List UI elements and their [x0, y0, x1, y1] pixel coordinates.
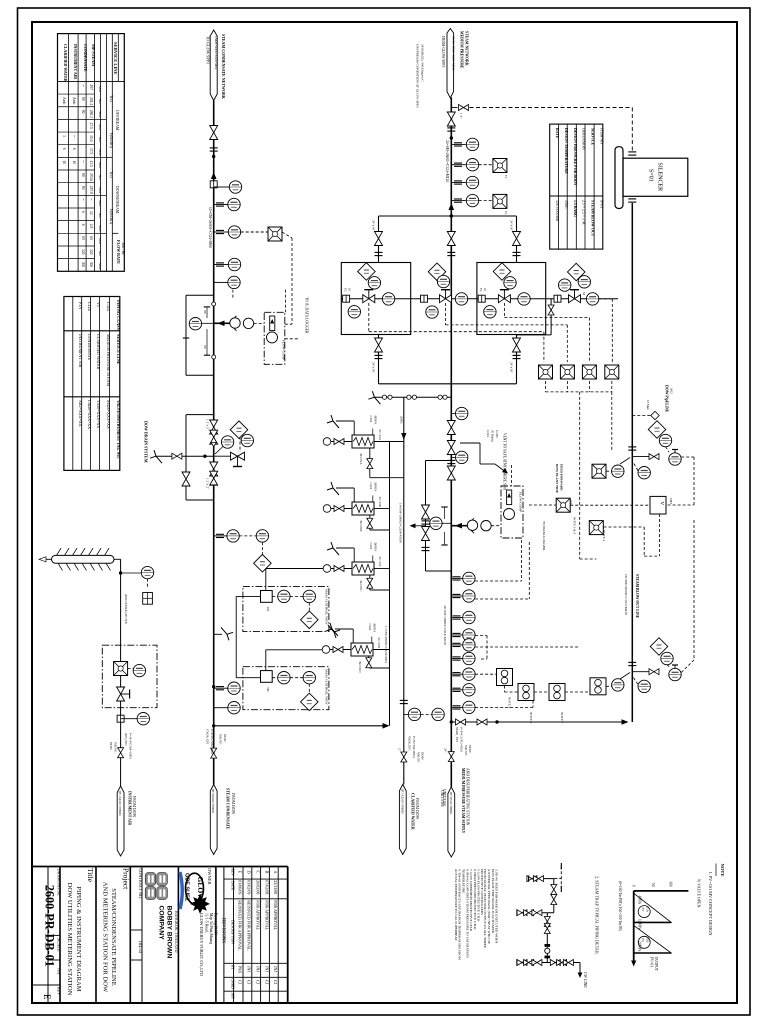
- svg-text:297: 297: [89, 85, 93, 91]
- steam main pipe: [450, 98, 452, 788]
- svg-text:FLOW COMP: FLOW COMP: [519, 492, 523, 512]
- svg-text:6: 6: [81, 211, 85, 213]
- svg-text:CW LINE: CW LINE: [583, 972, 587, 988]
- svg-text:Title: Title: [86, 868, 95, 883]
- svg-text:T(c): T(c): [109, 95, 113, 102]
- svg-text:UPSTREAM CONDITION AT GLOW SPP: UPSTREAM CONDITION AT GLOW SPP3: [416, 44, 420, 108]
- svg-text:(0=100 Tm/PM) (100=350 Tm/M): (0=100 Tm/PM) (100=350 Tm/M): [618, 881, 622, 932]
- flow computer dash-dot box: [264, 312, 285, 364]
- ultrasonic flow meter on condensate line: [214, 322, 229, 324]
- svg-text:BT=A8101=T98892: BT=A8101=T98892: [118, 791, 122, 816]
- svg-text:DESIGN TEMPERATURE: DESIGN TEMPERATURE: [564, 128, 568, 174]
- FE bubble: [201, 322, 214, 324]
- svg-text:2. STEAM TRAP TYPICAL PIPING D: 2. STEAM TRAP TYPICAL PIPING DETAIL: [595, 876, 600, 955]
- svg-text:01B: 01B: [646, 937, 650, 942]
- off-page connector: clarified water from dow: [399, 784, 406, 854]
- svg-text:16=SM=26002=C324=M100: 16=SM=26002=C324=M100: [398, 503, 402, 543]
- svg-text:300: 300: [89, 262, 93, 268]
- svg-text:NOTE 8: NOTE 8: [508, 697, 512, 709]
- svg-text:A05_EP1: A05_EP1: [124, 733, 128, 746]
- svg-text:C12B: C12B: [495, 430, 499, 437]
- svg-text:1 2"x 2": 1 2"x 2": [206, 419, 210, 431]
- steam to blowout jumper: [451, 721, 623, 723]
- PCV diamond and controller bubbles: [230, 421, 248, 439]
- svg-text:6: 6: [81, 224, 85, 226]
- blowout bottom transmitter square: [590, 678, 606, 695]
- svg-text:50: 50: [651, 883, 655, 887]
- svg-text:V: V: [659, 502, 664, 506]
- svg-text:2600-PR-DB-01: 2600-PR-DB-01: [43, 885, 57, 967]
- svg-text:65: 65: [81, 236, 85, 240]
- svg-text:CONDENSATE: CONDENSATE: [83, 44, 88, 72]
- svg-text:FLOW COMP: FLOW COMP: [282, 340, 286, 360]
- blowout top transmitter square: [592, 464, 606, 478]
- silencer S-01 diffuser plate: [615, 147, 623, 209]
- svg-text:MP STEAM: MP STEAM: [91, 44, 96, 66]
- svg-text:SC=01C: SC=01C: [378, 557, 382, 567]
- svg-text:Nor: Nor: [98, 137, 102, 143]
- svg-text:Min: Min: [98, 86, 102, 92]
- svg-text:C324: C324: [369, 416, 373, 423]
- off-page connector: instrument air from dow: [117, 786, 124, 856]
- svg-text:24=SM=26001=C324=M120: 24=SM=26001=C324=M120: [445, 140, 449, 182]
- svg-text:SM26_EP1: SM26_EP1: [455, 727, 459, 743]
- valves below cross: [210, 462, 218, 476]
- mass control view box 2: [243, 667, 329, 710]
- svg-text:CJ: CJ: [247, 980, 252, 985]
- train 3 internals: [493, 263, 511, 281]
- condensate return line vertical: [389, 442, 391, 726]
- sampling stub with bubbles and diamond: [214, 535, 227, 537]
- feed forward transmitter square: [556, 498, 570, 512]
- svg-text:10: 10: [483, 288, 487, 292]
- svg-text:DIMENSION: DIMENSION: [582, 128, 586, 150]
- svg-text:REISSUED FOR APPROVAL: REISSUED FOR APPROVAL: [238, 900, 243, 951]
- svg-text:VENT TO SAFE ATMOSPHERE S=01: VENT TO SAFE ATMOSPHERE S=01: [503, 433, 507, 491]
- svg-text:V1: V1: [96, 302, 101, 307]
- blowout top instrument cluster: [648, 421, 666, 439]
- svg-text:STEAM BLOW OUT: STEAM BLOW OUT: [591, 200, 595, 237]
- svg-text:VALVE: VALVE: [114, 742, 118, 752]
- svg-text:27.5: 27.5: [89, 122, 93, 128]
- svg-text:SERVICE LINE: SERVICE LINE: [113, 42, 118, 75]
- data logger dashed link: [529, 504, 556, 506]
- off-page connector: medium pressure steam network: [447, 29, 454, 99]
- flow meter to computer dashed: [254, 322, 265, 324]
- clarified water line vertical: [403, 397, 405, 784]
- svg-text:C324: C324: [369, 483, 373, 490]
- svg-text:S=01: S=01: [600, 200, 604, 208]
- svg-text:DOW: DOW: [468, 745, 472, 754]
- svg-text:Project: Project: [122, 868, 131, 890]
- svg-text:26002: 26002: [400, 416, 404, 424]
- steam trap detail piping: [529, 878, 555, 880]
- svg-text:DOW: DOW: [109, 742, 113, 751]
- svg-text:DESCRIPTION: DESCRIPTION: [231, 920, 235, 944]
- drain PCV station on condensate line: [186, 414, 214, 416]
- svg-text:22: 22: [89, 211, 93, 215]
- svg-text:SW26=XXX=XXX=M120: SW26=XXX=XXX=M120: [451, 36, 455, 71]
- svg-text:DATE: DATE: [231, 881, 235, 891]
- svg-text:MEDIUM PRESSURE: MEDIUM PRESSURE: [460, 31, 464, 69]
- letdown train 2 on main line: [428, 263, 446, 281]
- svg-text:FROM GLOW SPP3: FROM GLOW SPP3: [441, 36, 445, 67]
- air manifold takeoff hatches: [57, 548, 62, 555]
- svg-text:B09E4: B09E4: [374, 543, 378, 552]
- svg-text:JNJ: JNJ: [256, 966, 261, 972]
- svg-text:24": 24": [444, 748, 448, 753]
- svg-text:M: M: [582, 292, 586, 295]
- svg-text:FLOW RATE: FLOW RATE: [116, 240, 121, 264]
- note transmitter squares: [589, 521, 603, 535]
- svg-text:CONDENSATE: CONDENSATE: [87, 334, 92, 361]
- svg-text:B09E4: B09E4: [374, 483, 378, 492]
- svg-text:JNJ: JNJ: [247, 966, 252, 972]
- svg-text:24"x16": 24"x16": [509, 220, 513, 232]
- mass control view box 1: [243, 587, 329, 632]
- svg-text:20/02/08: 20/02/08: [256, 880, 261, 894]
- dimension bracket steam: [444, 507, 446, 519]
- interlock dashed drops: [545, 381, 547, 392]
- dashed link to split range valves: [681, 456, 694, 458]
- svg-text:INSTRUMENT AIR: INSTRUMENT AIR: [78, 334, 83, 368]
- svg-text:CM26=XXX=XX: CM26=XXX=XX: [87, 400, 92, 429]
- instrument stub TI 2: [214, 264, 229, 266]
- vent header with wye: [374, 396, 451, 398]
- pressure stubs mid steam line: [451, 413, 455, 415]
- sample cooler SC-01D: [351, 643, 373, 656]
- svg-text:10 Max: 10 Max: [646, 400, 650, 410]
- svg-text:03/06/09: 03/06/09: [238, 880, 243, 894]
- svg-text:RATE: RATE: [555, 128, 559, 139]
- silencer outlet flange and blow out line: [628, 199, 636, 202]
- svg-text:BOBBY BROWN: BOBBY BROWN: [166, 906, 173, 959]
- svg-text:NOTE: NOTE: [720, 864, 725, 877]
- svg-text:DOW DRAIN SYSTEM: DOW DRAIN SYSTEM: [144, 421, 149, 463]
- air battery limit valve: [120, 748, 122, 786]
- trap leg 2 with strainer and trap: [546, 913, 548, 963]
- cooler drain leg SC-01D: [368, 656, 370, 668]
- svg-text:=: =: [81, 160, 85, 162]
- flow meter bypass loop on steam main: [426, 460, 452, 462]
- svg-text:REV: REV: [57, 987, 62, 995]
- svg-text:35.0: 35.0: [89, 135, 93, 141]
- vent wye on condensate line: [214, 633, 222, 635]
- setpoint flag on blow out line: [632, 415, 651, 417]
- instrument air manifold sparger: [52, 555, 115, 563]
- svg-text:2.8: 2.8: [89, 224, 93, 229]
- svg-text:STEAM BLOW OUT LINE: STEAM BLOW OUT LINE: [635, 574, 639, 619]
- svg-text:150C: 150C: [564, 200, 568, 209]
- svg-text:AB5=XXX=XX: AB5=XXX=XX: [78, 400, 83, 427]
- svg-text:Max: Max: [98, 263, 102, 270]
- air PI below box: [117, 715, 124, 722]
- svg-text:TR4/54: TR4/54: [138, 940, 143, 954]
- svg-text:MASS CONTROL VIEW: MASS CONTROL VIEW: [325, 669, 329, 705]
- svg-text:VA26=XXX=XX: VA26=XXX=XX: [96, 400, 101, 428]
- svg-text:Max: Max: [98, 149, 102, 156]
- battery limit valve condensate: [211, 748, 217, 758]
- svg-text:VALVE: VALVE: [416, 752, 420, 762]
- svg-text:B: B: [264, 871, 269, 874]
- blowout bottom instrument cluster: [650, 638, 668, 656]
- instrument bubble column on steam main: [451, 577, 462, 579]
- svg-text:1.5 BARG: 1.5 BARG: [573, 200, 577, 217]
- svg-text:120: 120: [89, 249, 93, 255]
- svg-text:ITEM NO: ITEM NO: [600, 128, 604, 144]
- svg-text:TO DATA LOGGER: TO DATA LOGGER: [542, 521, 546, 551]
- cross fitting and control valve with bottom actuator: [203, 455, 206, 458]
- letdown train 4: [567, 263, 585, 281]
- svg-text:NA: NA: [57, 968, 62, 975]
- svg-text:Max: Max: [98, 111, 102, 118]
- svg-text:PIPING CLASS: PIPING CLASS: [116, 300, 121, 331]
- svg-text:STEAM CONDENSATE: STEAM CONDENSATE: [226, 788, 230, 830]
- svg-text:STEAM/CONDENSATE PIPELINE: STEAM/CONDENSATE PIPELINE: [110, 888, 117, 986]
- svg-text:80: 80: [81, 186, 85, 190]
- svg-text:SC=01D: SC=01D: [377, 638, 381, 649]
- svg-text:OUTPUT: OUTPUT: [654, 957, 658, 972]
- sample line cooler C to analyser box 1: [265, 569, 267, 591]
- trap leg 1: [553, 879, 555, 913]
- svg-text:UPSTREAM: UPSTREAM: [115, 110, 119, 131]
- svg-text:CONTRACT NO.: CONTRACT NO.: [138, 869, 143, 900]
- trap dashed signal stub: [554, 878, 561, 880]
- svg-text:APP: APP: [231, 993, 235, 1000]
- inlet riser train 3: [516, 216, 518, 263]
- svg-text:SERVICE LINE: SERVICE LINE: [116, 334, 121, 365]
- svg-text:FL: FL: [504, 211, 508, 215]
- air PI branch: [119, 571, 122, 574]
- svg-text:SC=01B: SC=01B: [378, 497, 382, 507]
- ultrasonic flow meter on steam main: [451, 525, 466, 527]
- svg-text:16=SM=26000=C324=M100: 16=SM=26000=C324=M100: [624, 574, 628, 615]
- svg-text:30 Bar(s): 30 Bar(s): [491, 430, 495, 442]
- svg-text:PV=01: PV=01: [650, 957, 654, 967]
- steam main valves below letdown: [447, 421, 455, 435]
- svg-text:Min: Min: [98, 162, 102, 168]
- svg-text:DOW: DOW: [223, 734, 227, 743]
- svg-text:PV: PV: [641, 908, 645, 913]
- condensate main pipe: [213, 101, 215, 785]
- svg-text:DRAWING No.: DRAWING No.: [57, 869, 62, 897]
- svg-text:10: 10: [72, 160, 76, 164]
- svg-text:BO=01A: BO=01A: [359, 454, 363, 466]
- svg-text:VA26_EP1: VA26_EP1: [407, 736, 411, 751]
- condensate to clarified line jumper: [214, 725, 385, 727]
- svg-text:BO=01D: BO=01D: [358, 662, 362, 674]
- off-page connector: MP steam supply desuperheating station: [448, 787, 455, 857]
- svg-text:CJ: CJ: [264, 980, 269, 985]
- svg-text:REV: REV: [231, 869, 235, 877]
- title block outline: [32, 866, 288, 868]
- svg-text:INSTRUMENT AIR: INSTRUMENT AIR: [73, 44, 78, 79]
- dimension bracket: [206, 307, 208, 318]
- svg-text:CLARIFIED WATER: CLARIFIED WATER: [96, 334, 101, 369]
- svg-text:DOW PLANT TRIP: DOW PLANT TRIP: [555, 464, 559, 493]
- svg-text:Amb: Amb: [72, 97, 76, 104]
- instrument stub TW: [214, 281, 228, 283]
- svg-text:C124: C124: [87, 302, 92, 311]
- battery limit valve steam: [448, 752, 454, 762]
- svg-text:PIPING & INSTRUMENT DIAGRAM: PIPING & INSTRUMENT DIAGRAM: [75, 886, 82, 991]
- svg-text:AB5=XXXX=PP=XX: AB5=XXXX=PP=XX: [124, 594, 128, 624]
- svg-text:FOR APPROVAL: FOR APPROVAL: [264, 900, 269, 930]
- svg-text:=: =: [72, 135, 76, 137]
- valves on steam main top: [447, 112, 455, 126]
- svg-text:BY: BY: [231, 965, 235, 970]
- svg-text:REISSUED FOR APPROVAL: REISSUED FOR APPROVAL: [247, 900, 252, 951]
- svg-text:MEDIUM PRESSURE STEAM: MEDIUM PRESSURE STEAM: [106, 334, 111, 386]
- svg-text:1 2": 1 2": [459, 113, 463, 119]
- letdown train box 1: [341, 263, 410, 335]
- cooler drain leg SC-01A: [369, 448, 371, 478]
- svg-text:Max: Max: [98, 187, 102, 194]
- pressure instrument stubs on steam main: [451, 143, 466, 145]
- svg-text:DOW UTILITIES METERING STATION: DOW UTILITIES METERING STATION: [66, 883, 73, 996]
- svg-text:=: =: [81, 198, 85, 200]
- svg-text:4MPa: 4MPa: [638, 896, 642, 905]
- summator square: [650, 496, 666, 514]
- svg-text:FROM DOW: FROM DOW: [132, 796, 136, 818]
- silencer S-01 body: [623, 158, 688, 196]
- svg-text:CLARIFIED WATER: CLARIFIED WATER: [411, 793, 415, 830]
- trap middle branch: [517, 912, 554, 914]
- svg-text:CHKD: CHKD: [231, 979, 235, 990]
- computer output dashed to logger: [285, 323, 292, 325]
- svg-text:OWNER: OWNER: [207, 868, 212, 885]
- svg-text:VALVE: VALVE: [219, 734, 223, 744]
- cooler drain leg SC-01C: [369, 575, 371, 590]
- svg-text:TO JL DATA LOGGER: TO JL DATA LOGGER: [305, 297, 309, 334]
- svg-text:FL: FL: [479, 288, 483, 292]
- svg-text:=: =: [81, 85, 85, 87]
- svg-text:T(c): T(c): [109, 171, 113, 178]
- flange box and PI stub: [210, 181, 217, 188]
- svg-text:NOTE 4: NOTE 4: [602, 530, 606, 542]
- svg-text:Ton / Hr: Ton / Hr: [121, 242, 125, 256]
- svg-text:FROM DOW: FROM DOW: [231, 793, 235, 815]
- note squares with indicators: [497, 669, 513, 686]
- svg-text:UT: UT: [569, 500, 573, 504]
- svg-text:NOTE 3 & 5: NOTE 3 & 5: [573, 517, 577, 534]
- svg-text:TIC: TIC: [266, 687, 270, 693]
- svg-text:TO GLOW SPP3: TO GLOW SPP3: [206, 36, 211, 64]
- svg-text:FL: FL: [504, 175, 508, 179]
- silencer inlet flange: [628, 152, 636, 155]
- svg-text:=: =: [89, 198, 93, 200]
- svg-text:STEAM NETWORK: STEAM NETWORK: [465, 31, 469, 66]
- svg-text:C324: C324: [368, 624, 372, 631]
- signal dashed network right side: [570, 504, 650, 506]
- transmitter squares: [493, 159, 507, 173]
- svg-text:22/11/08: 22/11/08: [273, 880, 278, 894]
- svg-text:281.2: 281.2: [89, 97, 93, 105]
- svg-text:P(BARG): P(BARG): [109, 133, 113, 149]
- svg-text:E: E: [238, 871, 243, 874]
- small unions on condensate line: [212, 302, 216, 306]
- trap outlet to CW line: [579, 963, 581, 975]
- svg-text:DOWNSTREAM: DOWNSTREAM: [115, 186, 119, 214]
- svg-text:FL: FL: [344, 288, 348, 292]
- cooler drain leg SC-01B: [369, 515, 371, 530]
- svg-text:300: 300: [81, 262, 85, 268]
- svg-text:80: 80: [81, 110, 85, 114]
- svg-text:P=A=PU/VA=0003: P=A=PU/VA=0003: [128, 733, 132, 759]
- svg-text:Nor: Nor: [98, 175, 102, 181]
- svg-text:BO=01C: BO=01C: [359, 581, 363, 592]
- svg-text:MES: MES: [669, 498, 673, 505]
- svg-text:JNJ: JNJ: [264, 966, 269, 972]
- svg-text:CJ: CJ: [238, 980, 243, 985]
- svg-text:24"x16": 24"x16": [509, 362, 513, 374]
- svg-text:SCALE: SCALE: [57, 938, 62, 952]
- svg-text:A02: A02: [670, 388, 674, 394]
- svg-text:Rayong 21150: Rayong 21150: [214, 913, 218, 935]
- battery limit valve clarified water: [401, 752, 407, 762]
- svg-text:JNJ: JNJ: [273, 966, 278, 972]
- svg-text:120 TON/HR: 120 TON/HR: [555, 200, 559, 222]
- svg-text:B09E4: B09E4: [373, 624, 377, 633]
- svg-text:24"x16": 24"x16": [371, 362, 375, 374]
- inlet riser train 1: [378, 216, 380, 263]
- flow meter bypass loop: [186, 294, 214, 296]
- letdown common pipe run: [341, 298, 618, 300]
- title block sub dividers: [32, 984, 60, 986]
- svg-text:BT=8510=T98861: BT=8510=T98861: [449, 792, 453, 815]
- main riser fittings: [447, 232, 455, 246]
- svg-text:SC=01A: SC=01A: [378, 430, 382, 441]
- svg-text:12=CM=26001=C324=M60: 12=CM=26001=C324=M60: [208, 207, 212, 248]
- svg-text:PKS: PKS: [238, 966, 243, 973]
- steam flow computer dash-dot box: [501, 486, 523, 538]
- svg-text:S=01: S=01: [648, 169, 654, 182]
- svg-text:20MPa: 20MPa: [638, 941, 642, 952]
- flow arrow on steam main above header: [449, 203, 455, 210]
- svg-text:P(BARG): P(BARG): [109, 209, 113, 225]
- letdown outlet header: [379, 383, 517, 385]
- svg-text:P=P=PU/VA=0001: P=P=PU/VA=0001: [210, 729, 214, 755]
- sample cooler SC-01A: [352, 435, 374, 448]
- svg-text:AND DESUPERHEATING STATION: AND DESUPERHEATING STATION: [466, 768, 470, 826]
- svg-text:24=SM=26003=C324=M120: 24=SM=26003=C324=M120: [443, 605, 447, 645]
- svg-text:Max: Max: [98, 225, 102, 232]
- svg-text:3: 3: [62, 135, 66, 137]
- svg-text:% VALVE OPEN: % VALVE OPEN: [697, 879, 702, 907]
- svg-text:Amb: Amb: [62, 97, 66, 104]
- positioner signal cascade dashed: [369, 331, 544, 333]
- svg-text:FOR APPROVAL: FOR APPROVAL: [273, 900, 278, 930]
- svg-text:65: 65: [89, 236, 93, 240]
- svg-text:CM26_EP1: CM26_EP1: [205, 729, 209, 745]
- svg-text:07/02/08: 07/02/08: [264, 880, 269, 894]
- revision table grid: [233, 867, 235, 1004]
- svg-text:CJ: CJ: [273, 980, 278, 985]
- svg-text:80: 80: [81, 173, 85, 177]
- title block vertical dividers: [47, 867, 49, 1004]
- svg-text:10: 10: [348, 288, 352, 292]
- glow logo: [186, 873, 204, 904]
- svg-text:FEED FORWARD: FEED FORWARD: [560, 464, 564, 491]
- svg-text:INSTRUMENT AIR: INSTRUMENT AIR: [128, 791, 132, 825]
- svg-text:C: C: [256, 871, 261, 874]
- off-page connector: steam condensate from dow: [210, 784, 217, 854]
- bobby brown logo blocks: [145, 873, 156, 886]
- svg-text:CM28=XXX=XXX=M02: CM28=XXX=XXX=M02: [214, 36, 218, 70]
- svg-text:FOR APPROVAL: FOR APPROVAL: [256, 900, 261, 930]
- svg-text:DOW: DOW: [421, 752, 425, 761]
- clarified water bubbles: [404, 713, 409, 715]
